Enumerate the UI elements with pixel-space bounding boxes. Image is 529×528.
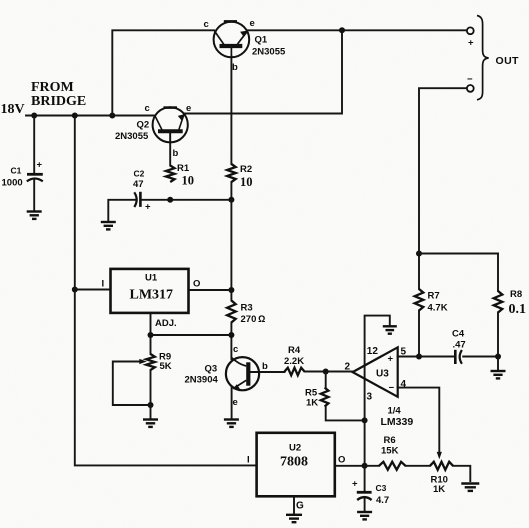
wire U1 output: [189, 289, 231, 291]
svg-text:+: +: [37, 160, 43, 171]
node pin3-U2 output junction: [362, 463, 368, 469]
svg-text:O: O: [338, 455, 345, 466]
svg-text:I: I: [247, 455, 250, 466]
svg-text:+: +: [388, 354, 394, 365]
svg-text:2: 2: [345, 362, 351, 373]
svg-text:2N3904: 2N3904: [185, 375, 219, 386]
node R4-R5 junction: [323, 369, 329, 375]
terminal OUT+: [467, 27, 474, 34]
svg-text:+: +: [145, 202, 151, 213]
resistor R8: [494, 291, 503, 313]
wire regulator output bus: [230, 200, 232, 301]
wire U1 input: [75, 289, 111, 291]
node pin3-R5 junction: [362, 417, 368, 423]
wire Q1 collector to bridge rail: [112, 30, 214, 115]
resistor R2: [227, 164, 236, 182]
ground U2: [286, 515, 302, 522]
node C4-R8 ground junction: [495, 354, 501, 360]
wire C1 bottom to ground: [33, 179, 35, 211]
capacitor C4: [454, 350, 457, 364]
node OUT- sense junction: [416, 251, 422, 257]
transistor Q3: [226, 357, 259, 390]
svg-text:C1: C1: [11, 166, 22, 176]
svg-text:2N3055: 2N3055: [252, 47, 286, 58]
svg-text:7808: 7808: [280, 455, 308, 470]
svg-text:R7: R7: [428, 291, 440, 302]
resistor R3: [227, 301, 236, 323]
svg-text:5: 5: [401, 347, 407, 358]
capacitor C3: [357, 491, 372, 494]
svg-text:e: e: [186, 103, 191, 114]
svg-text:.47: .47: [453, 340, 466, 351]
wire U3 pin 4 to R10 wiper: [398, 388, 440, 452]
svg-text:FROM: FROM: [31, 80, 74, 95]
resistor R6: [379, 462, 406, 470]
svg-text:R1: R1: [177, 163, 190, 174]
node R9 wiper return junction: [148, 402, 154, 408]
svg-text:I: I: [102, 279, 105, 290]
svg-text:LM317: LM317: [130, 288, 174, 303]
capacitor C2: [134, 192, 136, 207]
regulator U1: [111, 269, 189, 313]
svg-text:b: b: [173, 148, 179, 159]
svg-text:+: +: [352, 479, 358, 490]
wire R6 to R10: [406, 465, 431, 467]
wire R4 to U3 pin 2: [305, 371, 353, 373]
svg-text:−: −: [389, 383, 395, 394]
node bridge-Q1 junction: [109, 113, 115, 119]
ground R9: [143, 420, 158, 427]
ground R10 return: [461, 484, 479, 491]
potentiometer R9: [146, 354, 155, 370]
node U1 output junction: [228, 287, 234, 293]
wire U2 output to R6: [335, 465, 379, 467]
wire ADJ link: [151, 334, 232, 336]
node pin5-R7 junction: [416, 354, 422, 360]
svg-text:C3: C3: [376, 483, 387, 493]
wire R9 wiper loop: [113, 362, 151, 406]
svg-text:1K: 1K: [433, 484, 445, 495]
transistor Q2: [153, 107, 188, 142]
svg-text:270: 270: [241, 314, 257, 325]
svg-text:G: G: [296, 501, 304, 512]
svg-text:R3: R3: [241, 303, 253, 314]
wire C2-R1-R2 node link: [143, 199, 232, 201]
svg-text:47: 47: [133, 179, 144, 190]
brace OUT: [477, 16, 489, 100]
svg-text:3: 3: [367, 392, 373, 403]
wire C3 bottom to ground: [364, 498, 366, 512]
wire Q1 base to R2: [230, 56, 232, 164]
wire C3 top: [364, 466, 366, 491]
resistor R7: [415, 289, 424, 311]
svg-text:ADJ.: ADJ.: [155, 318, 177, 329]
wire R3 bottom to ADJ node: [230, 323, 232, 360]
svg-text:1000: 1000: [2, 178, 23, 189]
svg-text:LM339: LM339: [381, 416, 414, 428]
wire U3 pin 12 to ground: [365, 316, 390, 466]
wire C4 right to R8 bottom: [463, 356, 498, 358]
wire 18V input rail: [26, 115, 154, 117]
ground Q3: [224, 420, 239, 427]
svg-text:5K: 5K: [160, 361, 172, 372]
node ADJ junction: [148, 332, 154, 338]
node Q1 emitter junction: [339, 27, 345, 33]
wire Q3 emitter to ground: [231, 388, 233, 419]
svg-text:R2: R2: [240, 164, 252, 175]
svg-text:4.7: 4.7: [376, 495, 389, 506]
op-amp U3: [353, 347, 398, 397]
wire C1 top: [33, 116, 35, 174]
svg-text:4.7K: 4.7K: [428, 303, 448, 314]
resistor R5: [321, 388, 329, 407]
svg-text:Ω: Ω: [258, 314, 265, 325]
wire R8 top: [497, 254, 499, 292]
resistor R1: [166, 166, 175, 183]
svg-text:R4: R4: [288, 345, 301, 356]
svg-text:R8: R8: [510, 289, 522, 300]
wire R9 bottom: [150, 370, 152, 419]
capacitor C1: [27, 173, 43, 176]
svg-text:1K: 1K: [306, 398, 318, 409]
svg-text:Q3: Q3: [205, 364, 218, 375]
svg-text:U2: U2: [289, 443, 301, 454]
transistor Q1: [214, 22, 250, 58]
svg-text:U1: U1: [145, 273, 158, 284]
svg-text:c: c: [204, 19, 209, 30]
wire left supply drop to U2: [75, 116, 257, 466]
svg-text:C2: C2: [134, 169, 145, 179]
wire U3 pin 5 to C4: [398, 356, 455, 358]
svg-text:BRIDGE: BRIDGE: [31, 94, 86, 109]
regulator U2: [257, 433, 335, 497]
svg-text:−: −: [467, 74, 473, 85]
node bridge-regulator junction: [72, 113, 78, 119]
wire R7 bottom: [418, 311, 420, 357]
wire R5 top: [325, 372, 327, 388]
svg-text:4: 4: [401, 379, 407, 390]
svg-text:Q2: Q2: [137, 120, 150, 131]
ground U3 pin12: [383, 326, 397, 333]
wire R5 bottom to pin3 line: [326, 407, 364, 421]
svg-text:0.1: 0.1: [509, 302, 527, 317]
svg-text:10: 10: [182, 174, 195, 188]
wire C2 left to ground: [108, 200, 135, 221]
wire R7 top: [418, 254, 420, 290]
svg-text:U3: U3: [376, 369, 389, 380]
ground C3: [357, 512, 372, 519]
node bridge-C1 junction: [31, 113, 37, 119]
node R3-ADJ junction: [228, 332, 234, 338]
wire R2 bottom: [230, 182, 232, 200]
svg-text:O: O: [193, 279, 200, 290]
svg-text:c: c: [233, 344, 238, 355]
svg-text:OUT: OUT: [496, 55, 520, 67]
wire OUT- drop: [419, 88, 467, 253]
svg-text:2.2K: 2.2K: [284, 356, 304, 367]
ground C2: [101, 222, 116, 229]
svg-text:c: c: [145, 103, 150, 114]
terminal OUT-: [467, 85, 474, 92]
wire Q1/Q2 emitter bus: [184, 30, 342, 113]
svg-text:15K: 15K: [381, 446, 399, 457]
wire U1 ADJ pin: [150, 314, 152, 355]
svg-text:1/4: 1/4: [388, 406, 402, 417]
node R1 bottom junction: [167, 197, 173, 203]
svg-text:e: e: [250, 18, 255, 29]
svg-text:12: 12: [367, 346, 379, 357]
svg-text:e: e: [233, 397, 238, 408]
node U1 input junction: [72, 287, 78, 293]
wire R10 right to ground: [453, 466, 470, 481]
svg-text:b: b: [262, 361, 268, 372]
svg-text:R6: R6: [384, 435, 396, 446]
resistor R4: [285, 368, 305, 376]
svg-text:10: 10: [240, 175, 253, 189]
wire Q2 base to R1: [169, 134, 171, 166]
wire Q1 emitter to OUT+: [248, 29, 467, 31]
node R2 bottom junction: [228, 197, 234, 203]
wire R8 bottom to ground: [497, 313, 499, 371]
svg-text:Q1: Q1: [255, 35, 268, 46]
wire OUT- sense link: [419, 253, 498, 255]
svg-text:+: +: [468, 38, 474, 49]
svg-text:18V: 18V: [1, 102, 25, 117]
wire U2 ground pin: [293, 496, 295, 514]
ground C1: [27, 212, 42, 219]
wire Q3 base to R4: [251, 371, 285, 373]
svg-text:b: b: [232, 62, 238, 73]
ground R8: [491, 371, 506, 378]
svg-text:2N3055: 2N3055: [115, 131, 149, 142]
svg-text:C4: C4: [452, 329, 465, 340]
potentiometer R10: [430, 462, 453, 470]
